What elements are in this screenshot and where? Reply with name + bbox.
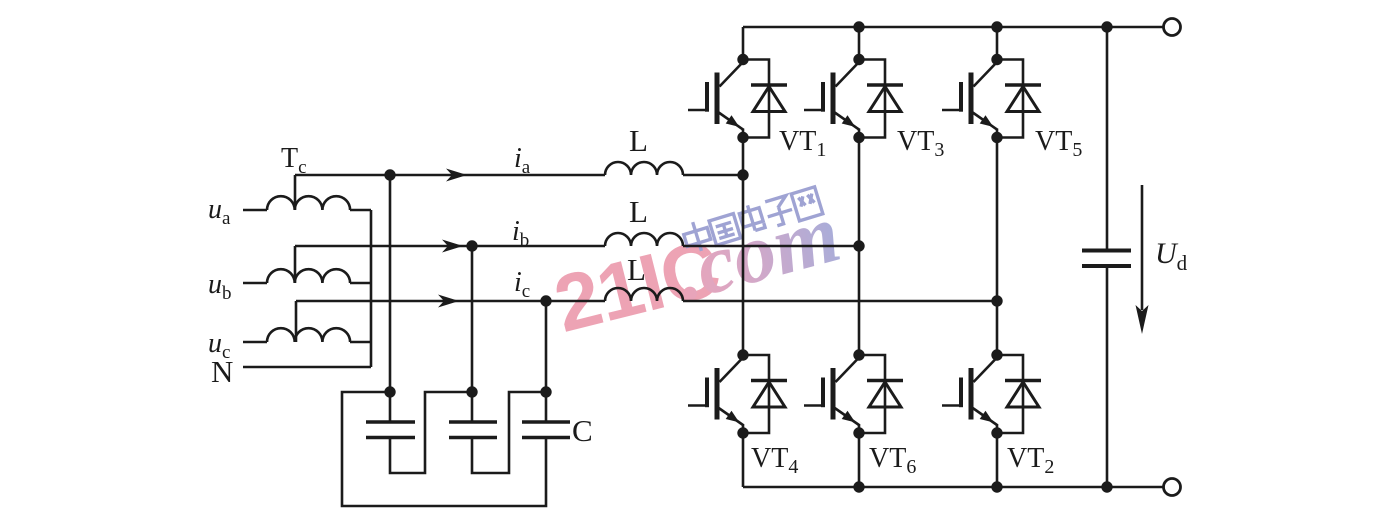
wire C2 bottom to node c xyxy=(472,392,544,473)
transistor VT2 with freewheel diode xyxy=(942,349,1041,438)
wire leg b riser xyxy=(858,27,861,60)
wire leg c lower xyxy=(996,434,999,488)
capacitor C3 top plate xyxy=(522,420,570,424)
wire negative DC rail xyxy=(743,486,1164,489)
arrow ib xyxy=(442,240,463,253)
arrow ic xyxy=(438,295,459,308)
wire positive DC rail xyxy=(743,26,1164,29)
wire cap branch a down xyxy=(389,175,392,421)
wire phase a right xyxy=(683,174,743,177)
capacitor Cd top plate xyxy=(1082,249,1131,253)
wire tap b up xyxy=(294,246,297,283)
wire winding common bus xyxy=(370,210,373,367)
node phase c bridge leg xyxy=(991,295,1002,306)
svg-text:L: L xyxy=(629,194,648,229)
node phase a cap tap xyxy=(384,169,395,180)
svg-text:C: C xyxy=(572,413,593,448)
wire leg c riser xyxy=(996,27,999,60)
inductor L phase b xyxy=(605,233,683,246)
arrow ia xyxy=(446,169,467,182)
capacitor C1 bottom plate xyxy=(366,436,415,440)
node rail top b xyxy=(853,21,864,32)
wire leg a middle xyxy=(742,137,745,355)
wire winding c right end xyxy=(350,341,371,344)
node rail top cap xyxy=(1101,21,1112,32)
wire winding b right end xyxy=(350,282,371,285)
watermark .com xyxy=(665,186,849,319)
wire tap a up xyxy=(294,175,297,210)
wire leg c middle xyxy=(996,137,999,355)
wire cap branch c down xyxy=(545,301,548,421)
wire ua lead xyxy=(243,209,267,212)
node phase a bridge leg xyxy=(737,169,748,180)
node cap a xyxy=(384,386,395,397)
wire leg b middle xyxy=(858,137,861,355)
inductor L phase a xyxy=(605,162,683,175)
capacitor C3 bottom plate xyxy=(522,436,570,440)
transistor VT1 with freewheel diode xyxy=(688,54,787,143)
capacitor C1 top plate xyxy=(366,420,415,424)
wire DC cap top xyxy=(1106,27,1109,249)
transistor VT6 with freewheel diode xyxy=(804,349,903,438)
wire phase c left xyxy=(296,300,605,303)
capacitor C2 top plate xyxy=(449,420,497,424)
inductor L phase c xyxy=(605,288,683,301)
wire phase c right xyxy=(683,300,997,303)
watermark 21IC xyxy=(546,223,728,349)
transistor VT5 with freewheel diode xyxy=(942,54,1041,143)
wire C1 bottom to node b xyxy=(390,392,470,473)
node cap c xyxy=(540,386,551,397)
wire Ud arrow shaft xyxy=(1141,185,1144,310)
wire leg b lower xyxy=(858,434,861,488)
node rail bottom b xyxy=(853,481,864,492)
wire leg a riser xyxy=(742,27,745,60)
svg-text:L: L xyxy=(629,123,648,158)
transformer Tc winding phase c xyxy=(267,328,350,342)
node rail bottom cap xyxy=(1101,481,1112,492)
wire phase b right xyxy=(683,245,859,248)
node phase b cap tap xyxy=(466,240,477,251)
node cap b xyxy=(466,386,477,397)
svg-text:L: L xyxy=(627,252,646,287)
node rail top c xyxy=(991,21,1002,32)
capacitor Cd bottom plate xyxy=(1082,264,1131,268)
wire C3 bottom loop to node a xyxy=(342,392,546,506)
wire uc lead xyxy=(243,341,267,344)
wire cap branch b down xyxy=(471,246,474,421)
capacitor C2 bottom plate xyxy=(449,436,497,440)
transformer Tc winding phase b xyxy=(267,269,350,283)
terminal DC+ xyxy=(1164,19,1181,36)
wire tap c up xyxy=(295,301,298,342)
wire ub lead xyxy=(243,282,267,285)
svg-text:N: N xyxy=(211,354,233,389)
node phase c cap tap xyxy=(540,295,551,306)
transformer Tc winding phase a xyxy=(267,196,350,210)
node rail bottom c xyxy=(991,481,1002,492)
node phase b bridge leg xyxy=(853,240,864,251)
terminal DC- xyxy=(1164,479,1181,496)
wire leg a lower xyxy=(742,434,745,488)
wire neutral N xyxy=(243,366,371,369)
transistor VT4 with freewheel diode xyxy=(688,349,787,438)
wire phase b left xyxy=(295,245,605,248)
transistor VT3 with freewheel diode xyxy=(804,54,903,143)
wire winding a right end xyxy=(350,209,371,212)
watermark chinese characters xyxy=(681,185,823,254)
wire phase a left xyxy=(295,174,605,177)
wire DC cap bottom xyxy=(1106,268,1109,487)
arrow Ud xyxy=(1136,305,1149,334)
